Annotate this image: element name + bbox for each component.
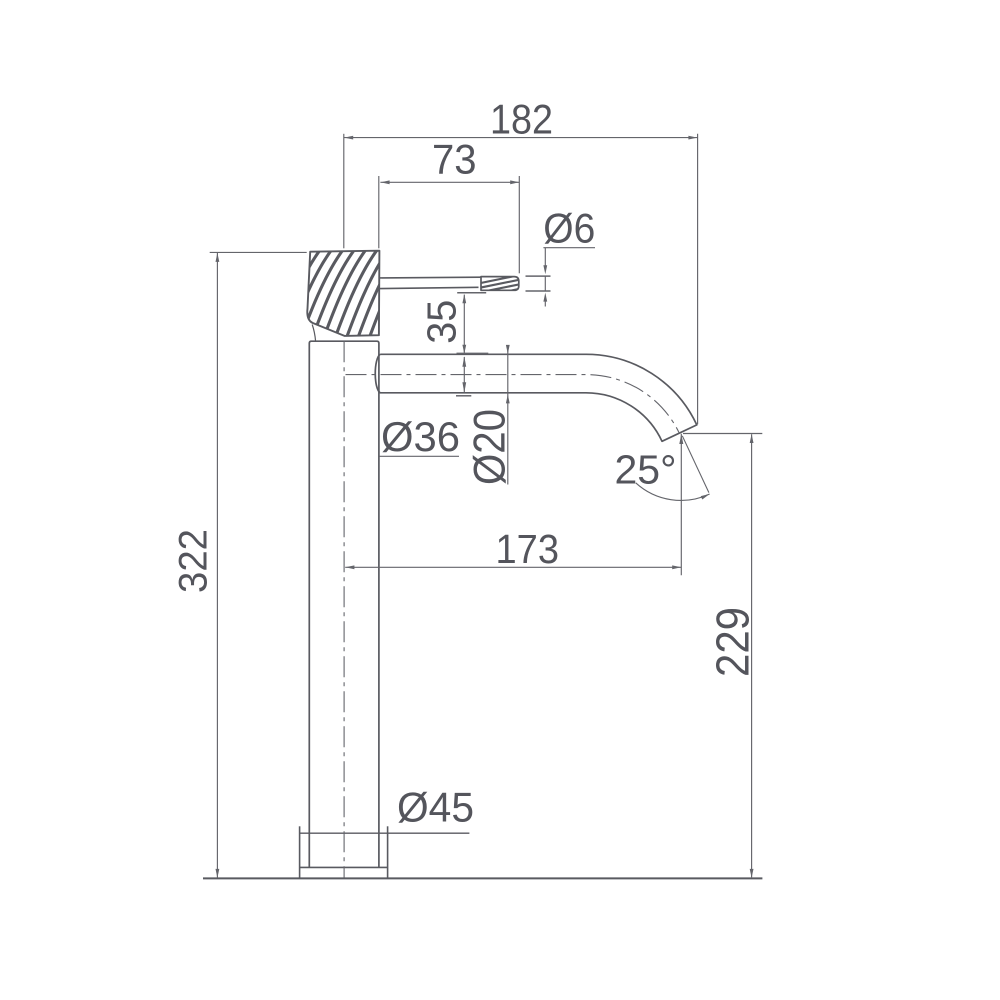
knob knurl hatching: [266, 247, 425, 340]
svg-text:182: 182: [490, 96, 553, 143]
spout: [375, 354, 697, 441]
base flange: [299, 826, 301, 877]
vertical centerline of body: [343, 341, 345, 877]
lever arm: [380, 276, 481, 279]
svg-text:Ø20: Ø20: [465, 409, 514, 485]
svg-text:73: 73: [432, 135, 477, 182]
svg-text:229: 229: [707, 607, 759, 677]
svg-text:35: 35: [419, 300, 465, 344]
dim 73 extension left: [378, 176, 380, 248]
dim 182 extension line right: [697, 134, 699, 425]
ground / mounting surface line: [203, 877, 762, 879]
svg-text:Ø45: Ø45: [397, 784, 474, 831]
svg-text:25°: 25°: [615, 447, 677, 493]
knob-neck junction arc: [312, 325, 315, 342]
dim 182 extension line left: [343, 134, 345, 249]
svg-text:Ø36: Ø36: [381, 413, 460, 460]
body column: [309, 341, 379, 867]
svg-text:Ø6: Ø6: [543, 205, 595, 252]
svg-text:173: 173: [496, 526, 560, 572]
spout centerline (horizontal + bend): [346, 375, 680, 434]
dim 73 extension right: [518, 176, 520, 273]
spout bore arrows at 464: [463, 357, 465, 392]
svg-text:322: 322: [172, 529, 216, 593]
